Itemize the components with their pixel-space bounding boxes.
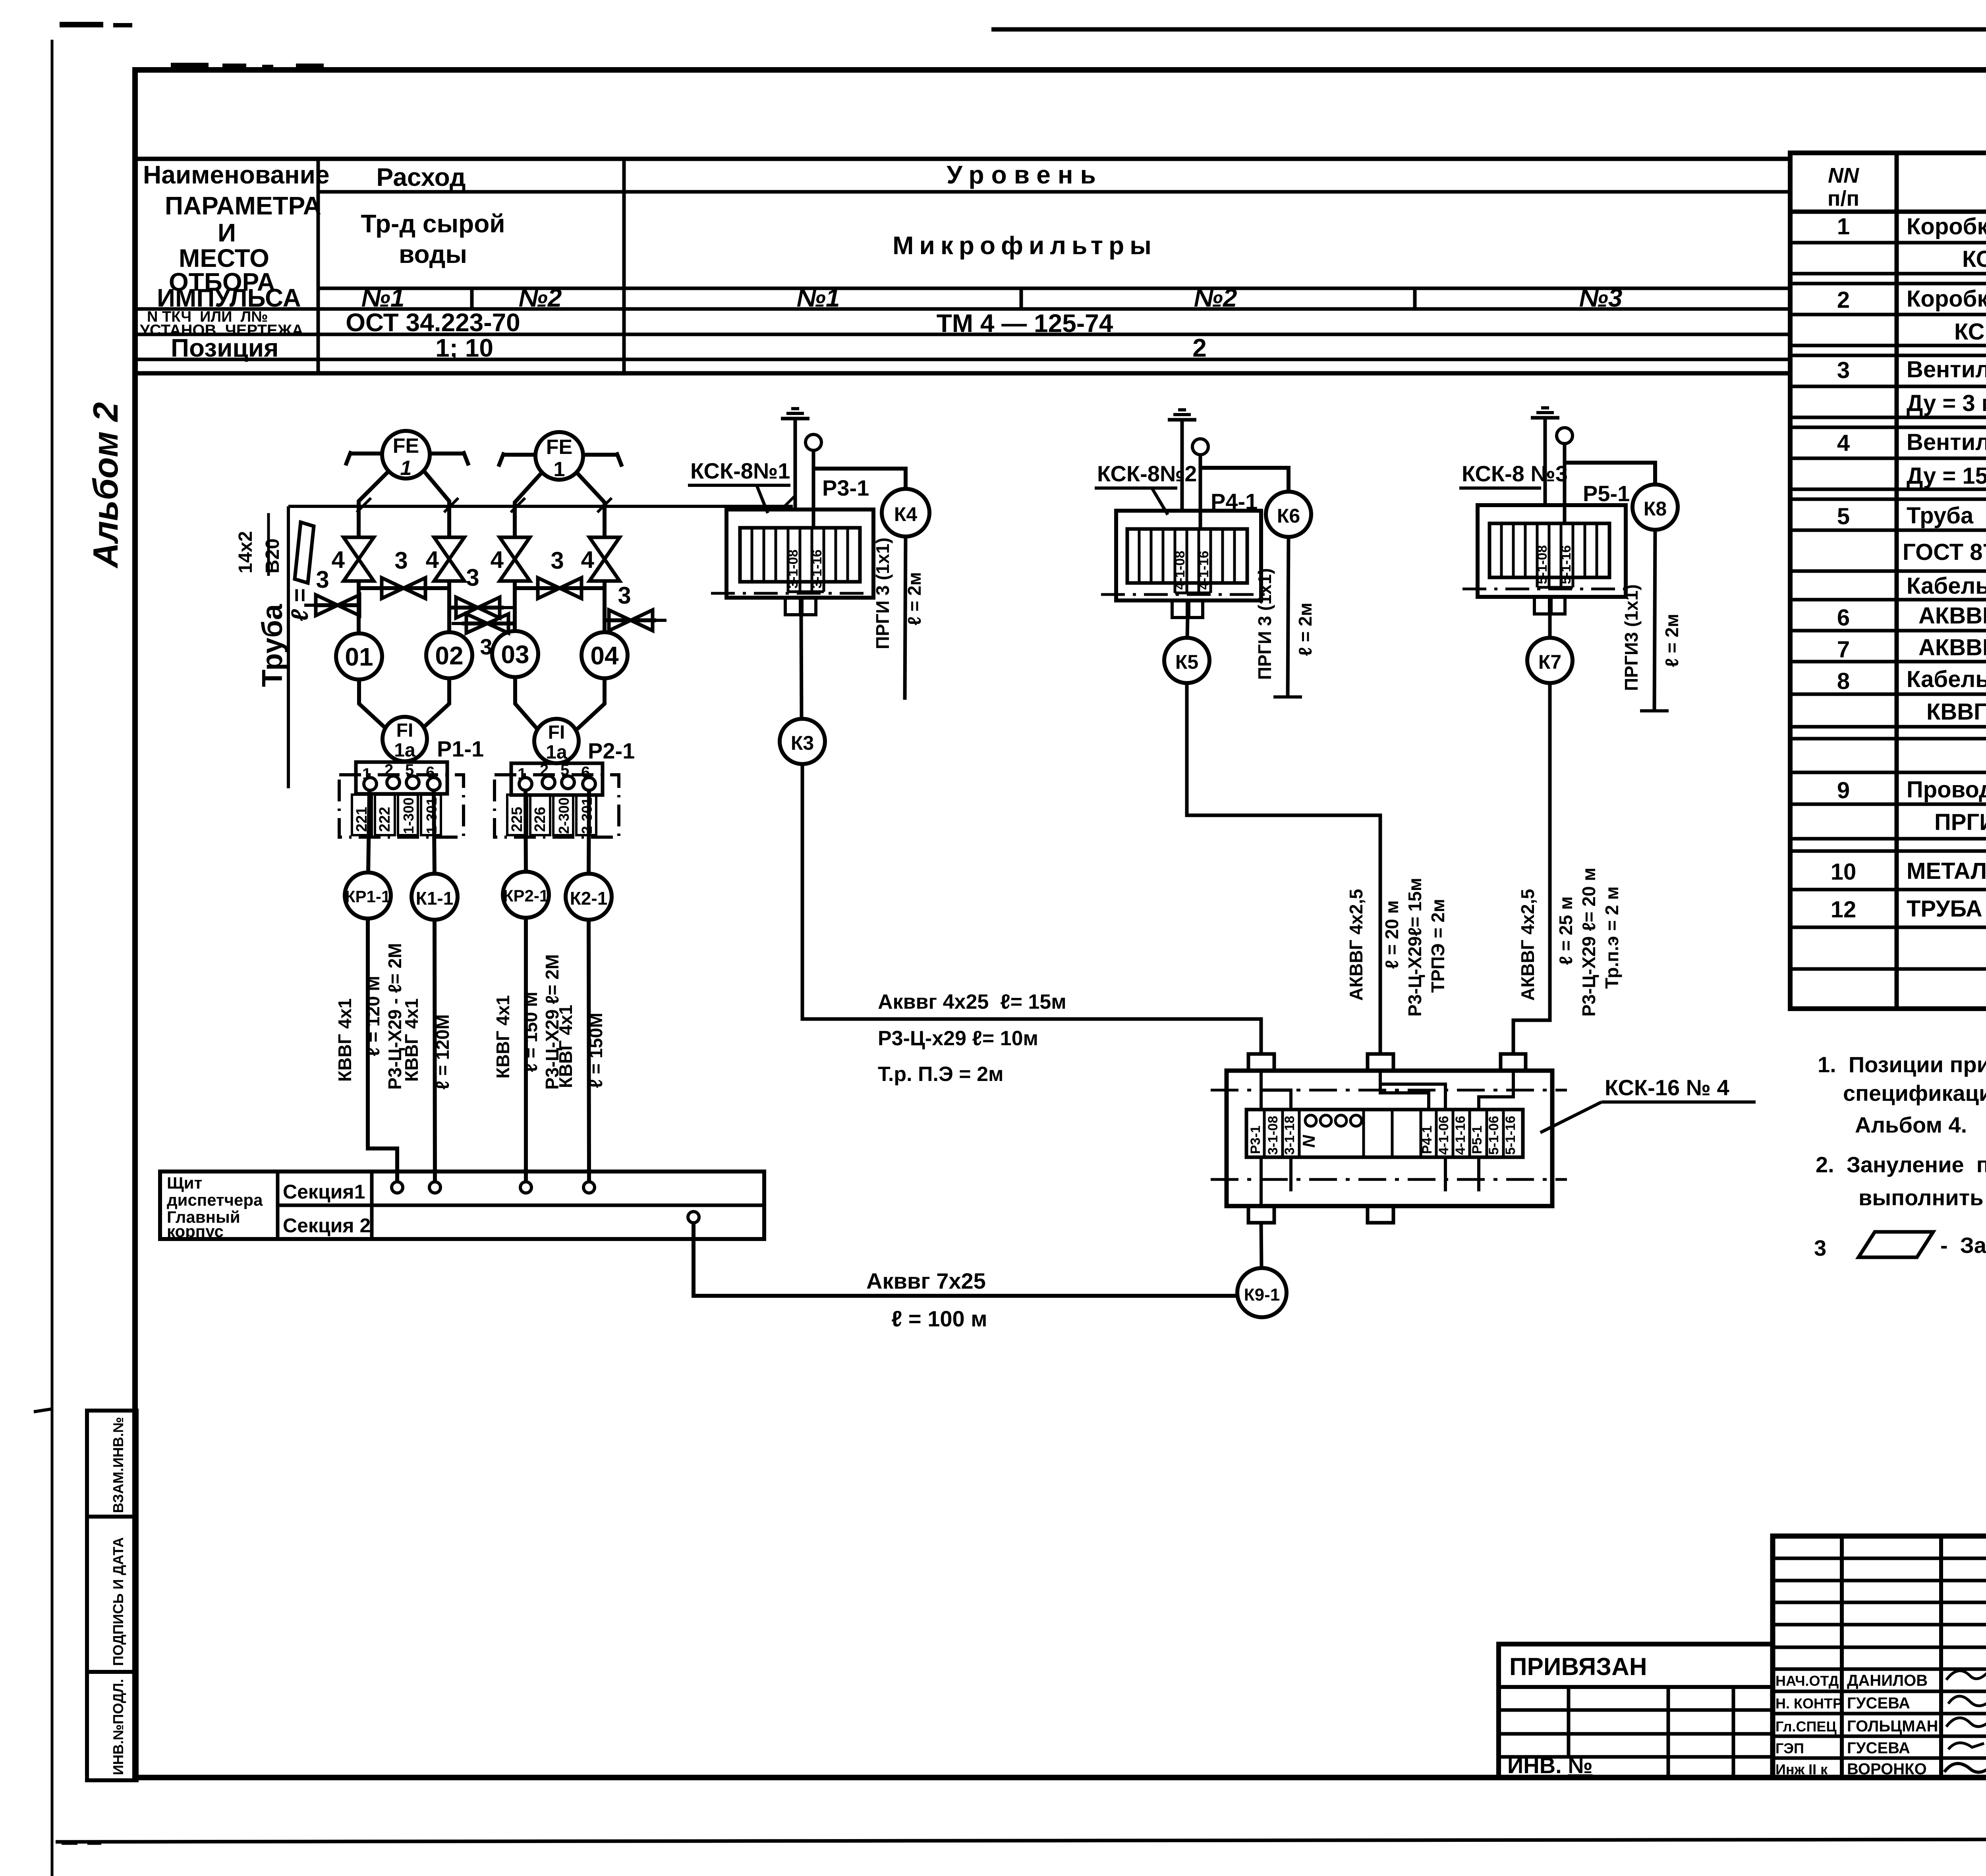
svg-text:В20: В20 [262,538,283,573]
svg-text:3: 3 [1837,357,1850,383]
svg-text:Ду = 3 мм, Ру = 16 кгс/см²: Ду = 3 мм, Ру = 16 кгс/см² 38 = 2м [1907,390,1986,416]
svg-text:Позиция: Позиция [171,334,278,362]
svg-text:04: 04 [590,641,619,670]
svg-text:- Заполняется при привязке п: - Заполняется при привязке проекта. [1940,1233,1986,1258]
svg-text:Вентиль запорный муфтовый: Вентиль запорный муфтовый [1907,429,1986,455]
svg-text:Р4-1: Р4-1 [1420,1125,1435,1154]
svg-text:ПРГИ3 (1х1): ПРГИ3 (1х1) [1621,584,1642,691]
svg-text:Коробка соединительная: Коробка соединительная [1907,286,1986,312]
svg-text:ℓ = 2м: ℓ = 2м [1295,602,1316,656]
svg-text:1; 10: 1; 10 [435,334,493,362]
svg-text:Инж II к: Инж II к [1775,1761,1828,1778]
svg-text:КВВГ 4х1: КВВГ 4х1 [334,998,355,1082]
svg-text:Акввг 4х25 ℓ= 15м: Акввг 4х25 ℓ= 15м [878,990,1066,1013]
svg-text:4: 4 [332,546,345,573]
svg-text:ТМ 4 — 125-74: ТМ 4 — 125-74 [937,309,1113,338]
svg-text:КСК-8№1: КСК-8№1 [690,458,790,483]
svg-text:5-1-16: 5-1-16 [1559,545,1574,584]
svg-text:ГОЛЬЦМАН: ГОЛЬЦМАН [1847,1718,1938,1735]
svg-text:ВЗАМ.ИНВ.№: ВЗАМ.ИНВ.№ [110,1417,126,1513]
svg-text:№1: №1 [797,284,840,312]
svg-text:п/п: п/п [1828,187,1859,210]
svg-text:Р3-Ц-Х29ℓ= 15м: Р3-Ц-Х29ℓ= 15м [1404,878,1425,1017]
svg-text:7: 7 [1837,637,1850,662]
svg-text:5-1-08: 5-1-08 [1535,545,1550,584]
svg-text:КВВГ 4х1: КВВГ 4х1 [493,995,513,1079]
svg-text:Вентиль запорный муфтовый: Вентиль запорный муфтовый [1907,357,1986,382]
svg-text:Уровень: Уровень [947,160,1103,189]
svg-text:ГУСЕВА: ГУСЕВА [1847,1695,1910,1712]
svg-text:2. Зануление приборов, соеди: 2. Зануление приборов, соединительных ко… [1816,1152,1986,1177]
svg-text:4: 4 [581,546,595,573]
svg-text:ℓ = 20 м: ℓ = 20 м [1381,900,1402,969]
svg-text:К7: К7 [1538,651,1561,673]
svg-text:8: 8 [1837,668,1850,694]
svg-text:ГЭП: ГЭП [1775,1740,1804,1756]
svg-text:3: 3 [1814,1235,1826,1260]
svg-text:3: 3 [466,564,479,591]
svg-text:2-301: 2-301 [579,797,595,834]
svg-text:5-1-06: 5-1-06 [1486,1116,1501,1155]
svg-text:Р3-1: Р3-1 [822,475,869,500]
svg-text:3-1-08: 3-1-08 [786,550,801,589]
svg-text:АКВВГ 4х2,5: АКВВГ 4х2,5 [1517,889,1538,1001]
svg-text:FE: FE [393,434,419,457]
svg-text:Н. КОНТР.: Н. КОНТР. [1775,1695,1844,1712]
svg-text:К5: К5 [1175,651,1198,673]
svg-text:4-1-06: 4-1-06 [1436,1116,1451,1155]
svg-text:ℓ = 100 м: ℓ = 100 м [891,1306,987,1331]
svg-text:9: 9 [1837,778,1850,803]
svg-text:N: N [1299,1135,1319,1148]
svg-text:5: 5 [1837,504,1850,529]
svg-text:Секция 2: Секция 2 [283,1214,371,1237]
svg-text:ℓ = 120М: ℓ = 120М [432,1014,453,1090]
svg-text:КР2-1: КР2-1 [503,886,549,905]
svg-text:5-1-16: 5-1-16 [1503,1116,1518,1155]
svg-text:FE: FE [546,436,572,459]
svg-text:4-1-16: 4-1-16 [1196,551,1211,590]
svg-text:3: 3 [618,582,631,609]
svg-text:№2: №2 [1194,284,1237,312]
svg-text:4: 4 [491,546,504,573]
svg-text:ТРПЭ = 2м: ТРПЭ = 2м [1428,899,1448,993]
svg-text:Р3-Ц-Х29 ℓ= 20 м: Р3-Ц-Х29 ℓ= 20 м [1578,868,1599,1017]
svg-text:выполнить согласно П: выполнить согласно ПУЭ-85§1-7, 46. [1858,1185,1986,1210]
svg-text:12: 12 [1831,897,1857,923]
svg-text:№3: №3 [1579,284,1623,312]
svg-text:ДАНИЛОВ: ДАНИЛОВ [1847,1672,1928,1689]
svg-text:Провод гибкий с медной жилой: Провод гибкий с медной жилой [1907,777,1986,803]
svg-text:1-301: 1-301 [423,797,440,834]
svg-text:Альбом 2: Альбом 2 [86,402,125,569]
svg-text:3-1-16: 3-1-16 [809,550,825,589]
svg-text:ИНВ. №: ИНВ. № [1507,1753,1593,1778]
svg-text:Микрофильтры: Микрофильтры [893,231,1157,260]
svg-text:ИМПУЛЬСА: ИМПУЛЬСА [157,284,301,312]
svg-text:3-1-18: 3-1-18 [1282,1116,1297,1155]
svg-text:К3: К3 [791,732,814,754]
svg-text:3-1-08: 3-1-08 [1265,1116,1281,1155]
svg-text:ПРГИ 3 (1х1): ПРГИ 3 (1х1) [1254,568,1275,680]
svg-text:КВВГ 4х1: КВВГ 4х1 [555,1005,576,1088]
svg-text:ПРИВЯЗАН: ПРИВЯЗАН [1509,1653,1647,1681]
svg-text:КВВГ 4 х 1 кв. м: КВВГ 4 х 1 кв. мм [1926,699,1986,725]
svg-text:К9-1: К9-1 [1244,1285,1280,1305]
svg-text:диспетчера: диспетчера [167,1191,263,1209]
svg-text:02: 02 [435,641,463,670]
svg-text:1a: 1a [394,740,415,761]
svg-text:226: 226 [532,807,549,832]
svg-text:4: 4 [426,546,439,573]
svg-text:1-300: 1-300 [400,797,417,834]
svg-text:К1-1: К1-1 [416,888,454,909]
svg-text:Щит: Щит [167,1173,202,1192]
svg-text:NN: NN [1828,164,1859,187]
svg-text:Тр-д сырой: Тр-д сырой [361,209,505,238]
svg-text:КСК-8 №3: КСК-8 №3 [1462,461,1568,486]
svg-text:КВВГ 4х1: КВВГ 4х1 [401,998,422,1082]
svg-text:1: 1 [1837,214,1850,239]
svg-text:4: 4 [1837,430,1850,456]
svg-text:КСК-16 № 4: КСК-16 № 4 [1605,1075,1729,1100]
svg-text:ПРГИ 1х1 кв. мм.: ПРГИ 1х1 кв. мм. [1934,809,1986,835]
svg-text:ТРУБА ПОЛИЭТИЛЕНОВАЯ 40х3: ТРУБА ПОЛИЭТИЛЕНОВАЯ 40х3 [1907,896,1986,922]
svg-text:Р2-1: Р2-1 [588,738,635,763]
svg-text:КСК- 16 , ТУ 36. 1753: КСК- 16 , ТУ 36. 1753 [1954,319,1986,345]
svg-text:4-1-08: 4-1-08 [1173,551,1188,590]
svg-text:14х2: 14х2 [235,531,256,573]
svg-text:FI: FI [548,722,565,743]
svg-text:К8: К8 [1644,498,1667,520]
svg-text:КСК-8№2: КСК-8№2 [1097,461,1197,486]
svg-text:Ду = 15 мм, 154 8п2: Ду = 15 мм, 154 8п2 [1907,463,1986,489]
svg-text:К6: К6 [1277,505,1300,527]
svg-text:Наименование: Наименование [143,160,330,189]
svg-text:ℓ = 150М: ℓ = 150М [585,1013,606,1088]
svg-text:Коробка соединительная: Коробка соединительная [1907,214,1986,239]
svg-text:Гл.СПЕЦ: Гл.СПЕЦ [1775,1718,1837,1735]
svg-text:спецификации оборудования АТ: спецификации оборудования АТХ.СО. [1843,1081,1986,1106]
svg-text:ПОДПИСЬ И ДАТА: ПОДПИСЬ И ДАТА [110,1537,126,1666]
svg-text:1: 1 [400,457,412,480]
svg-text:6: 6 [1837,605,1850,631]
svg-text:4-1-16: 4-1-16 [1453,1116,1468,1155]
svg-text:КР1-1: КР1-1 [345,887,390,906]
svg-text:ИНВ.№ПОДЛ.: ИНВ.№ПОДЛ. [110,1679,126,1775]
svg-text:225: 225 [509,807,525,832]
svg-text:1. Позиции приборов соответс: 1. Позиции приборов соответствуют [1818,1052,1986,1077]
svg-text:И: И [218,218,236,247]
svg-text:№2: №2 [519,284,562,312]
svg-text:Р5-1: Р5-1 [1470,1125,1485,1154]
svg-text:ℓ = 150 М: ℓ = 150 М [520,992,541,1072]
svg-text:корпус: корпус [167,1222,224,1241]
svg-text:ℓ = 2м: ℓ = 2м [1661,614,1682,667]
svg-text:Т.р. П.Э = 2м: Т.р. П.Э = 2м [878,1063,1003,1086]
svg-text:222: 222 [377,807,393,832]
svg-text:3: 3 [551,547,564,574]
svg-text:ℓ = 120 М: ℓ = 120 М [363,976,383,1056]
svg-text:К4: К4 [894,503,918,525]
svg-text:2-300: 2-300 [556,797,572,834]
svg-text:ГУСЕВА: ГУСЕВА [1847,1739,1910,1757]
svg-text:Альбом 4.: Альбом 4. [1855,1112,1967,1137]
svg-text:1a: 1a [546,742,567,763]
svg-text:ℓ = 25 м: ℓ = 25 м [1555,896,1576,965]
svg-text:АКВВГ 4х2,5: АКВВГ 4х2,5 [1346,889,1366,1001]
svg-text:Р5-1: Р5-1 [1583,481,1630,506]
svg-text:Акввг 7х25: Акввг 7х25 [866,1268,986,1293]
svg-text:МЕТАЛЛО РУКАВ Р3-Ц-Х29: МЕТАЛЛО РУКАВ Р3-Ц-Х29 [1907,858,1986,884]
svg-text:1: 1 [554,458,565,481]
svg-text:НАЧ.ОТД: НАЧ.ОТД [1775,1673,1839,1689]
svg-text:01: 01 [345,643,373,671]
svg-text:ОСТ 34.223-70: ОСТ 34.223-70 [346,308,520,337]
svg-text:Секция1: Секция1 [283,1181,365,1203]
svg-text:АКВВГ 7 х 2,5 кв. мм: АКВВГ 7 х 2,5 кв. мм [1918,635,1986,660]
svg-text:Кабель контрольный с медной ж: Кабель контрольный с медной жилой [1907,666,1986,692]
svg-text:Труба: Труба [257,604,288,687]
svg-text:Р1-1: Р1-1 [437,736,484,761]
svg-text:КСК-8 , ТУ 36. 1753: КСК-8 , ТУ 36. 1753 [1962,246,1986,272]
svg-text:Расход: Расход [376,163,466,191]
svg-text:Кабель контрольный ГОСТ 1508: Кабель контрольный ГОСТ 1508 - 78 Е [1907,573,1986,599]
svg-text:Р3-1: Р3-1 [1248,1125,1263,1154]
svg-text:ВОРОНКО: ВОРОНКО [1847,1760,1927,1778]
svg-text:ГОСТ 8734-75/ ГОСТ 8733-87: ГОСТ 8734-75/ ГОСТ 8733-87 [1903,539,1986,565]
svg-text:Р3-Ц-х29 ℓ= 10м: Р3-Ц-х29 ℓ= 10м [878,1027,1038,1050]
svg-text:03: 03 [501,640,529,669]
svg-text:3: 3 [394,547,408,574]
svg-text:К2-1: К2-1 [570,888,608,909]
svg-text:3: 3 [316,566,329,593]
svg-text:АКВВГ 4 х 2,5 кв. мм: АКВВГ 4 х 2,5 кв. мм [1918,603,1986,629]
svg-text:воды: воды [399,240,467,268]
svg-text:Труба водогазопроводная: Труба водогазопроводная [1907,503,1986,529]
svg-text:Тр.п.э = 2 м: Тр.п.э = 2 м [1602,886,1622,989]
svg-text:2: 2 [1837,287,1850,313]
svg-text:10: 10 [1831,859,1857,885]
svg-text:FI: FI [396,720,413,741]
svg-text:ℓ = 2м: ℓ = 2м [904,572,925,625]
svg-text:2: 2 [1192,334,1207,362]
svg-text:ПАРАМЕТРА: ПАРАМЕТРА [165,191,321,220]
